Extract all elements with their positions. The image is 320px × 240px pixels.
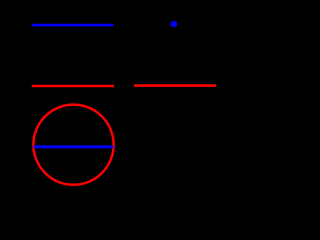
red horizontal line segment (middle right) [134,84,216,87]
red horizontal line segment (middle left) [32,85,114,88]
blue horizontal line segment (top left) [32,24,114,27]
blue chord line through circle [34,145,114,148]
red circle [33,105,113,185]
blue point (top right) [171,21,178,28]
